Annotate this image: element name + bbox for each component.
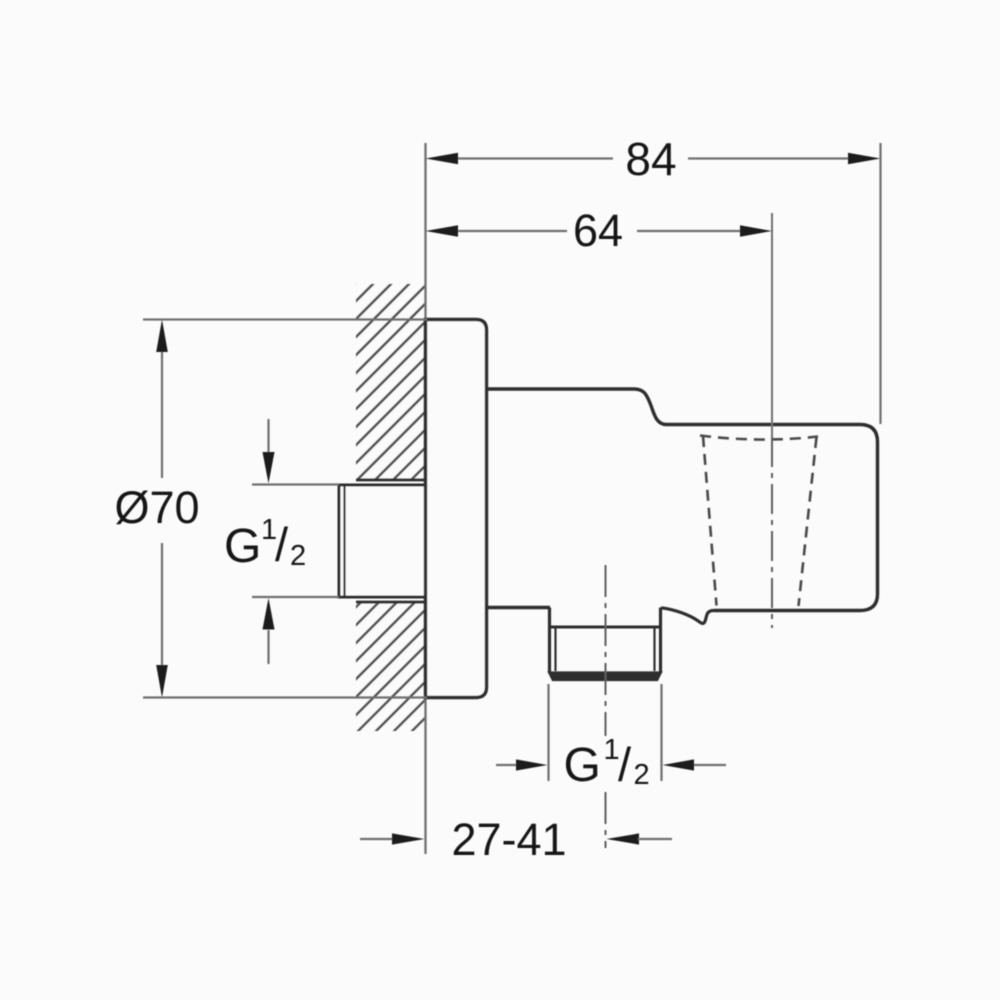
body and holder outline — [487, 389, 878, 611]
outlet thread inner right line — [653, 627, 655, 671]
wall hole bottom edge — [356, 601, 426, 604]
svg-text:64: 64 — [573, 205, 623, 256]
wall hatching lower — [356, 603, 425, 731]
holder centerline (dash-dot) — [771, 437, 773, 628]
wall surface line / extension line — [424, 143, 426, 854]
dim 84 right extension line — [879, 143, 881, 424]
dim O70 vertical line — [161, 352, 163, 665]
outlet thread inner left line — [554, 627, 556, 671]
G1/2 wall thread — [339, 485, 426, 597]
dim 27-41 right arrow — [607, 833, 640, 844]
body bottom wave — [661, 608, 714, 624]
svg-text:Ø70: Ø70 — [114, 482, 199, 533]
outlet centerline (dash-dot) — [605, 565, 607, 848]
dim 64 right extension line — [771, 213, 773, 437]
holder cone hidden top arc (dashed) — [700, 436, 818, 440]
thread dim upper extension line — [252, 483, 339, 485]
thread dim lower arrow — [267, 630, 269, 664]
wall hatching upper — [356, 284, 425, 479]
svg-text:G: G — [564, 739, 601, 792]
outlet right edge — [659, 608, 662, 674]
outlet shoulder line — [550, 626, 661, 629]
bottom G 1/2 text — [564, 734, 650, 792]
dim O70 bottom extension line — [143, 696, 427, 698]
dim 64 line — [458, 230, 740, 232]
holder cone hidden left edge (dashed) — [703, 436, 717, 606]
svg-text:2: 2 — [290, 540, 306, 572]
bottom G1/2 right extension line — [660, 684, 662, 781]
dim 84 right arrow — [848, 153, 881, 165]
dim 27-41 left line — [360, 838, 393, 840]
dim 84 left arrow — [426, 153, 459, 165]
bottom G1/2 left extension line — [547, 684, 549, 781]
dim 64 left arrow — [426, 225, 459, 237]
dim O70 top extension line — [143, 318, 427, 320]
svg-text:/: / — [275, 518, 289, 571]
outlet thread end band — [548, 672, 661, 681]
left G 1/2 text — [224, 514, 306, 573]
body bottom line left — [487, 606, 551, 609]
svg-text:G: G — [224, 520, 261, 573]
bottom G1/2 right arrow — [694, 764, 726, 766]
svg-text:2: 2 — [634, 759, 650, 791]
thread dim lower extension line — [252, 596, 339, 598]
dim 27-41 right line — [638, 838, 672, 840]
wall hole top edge — [356, 479, 426, 482]
dim 64 right arrow — [740, 225, 772, 237]
thread dim upper arrow — [267, 419, 269, 453]
svg-text:/: / — [618, 738, 632, 791]
bottom G1/2 left arrow — [496, 764, 516, 766]
svg-text:84: 84 — [625, 133, 676, 185]
flange (escutcheon) — [426, 320, 487, 698]
dim O70 top arrow — [156, 320, 168, 353]
dim O70 bottom arrow — [156, 665, 168, 698]
svg-text:27-41: 27-41 — [451, 814, 566, 865]
dim 27-41 left arrow — [392, 833, 425, 844]
dim 84 line — [458, 157, 848, 159]
outlet left edge — [548, 608, 551, 674]
holder cone hidden right edge (dashed) — [799, 437, 817, 606]
